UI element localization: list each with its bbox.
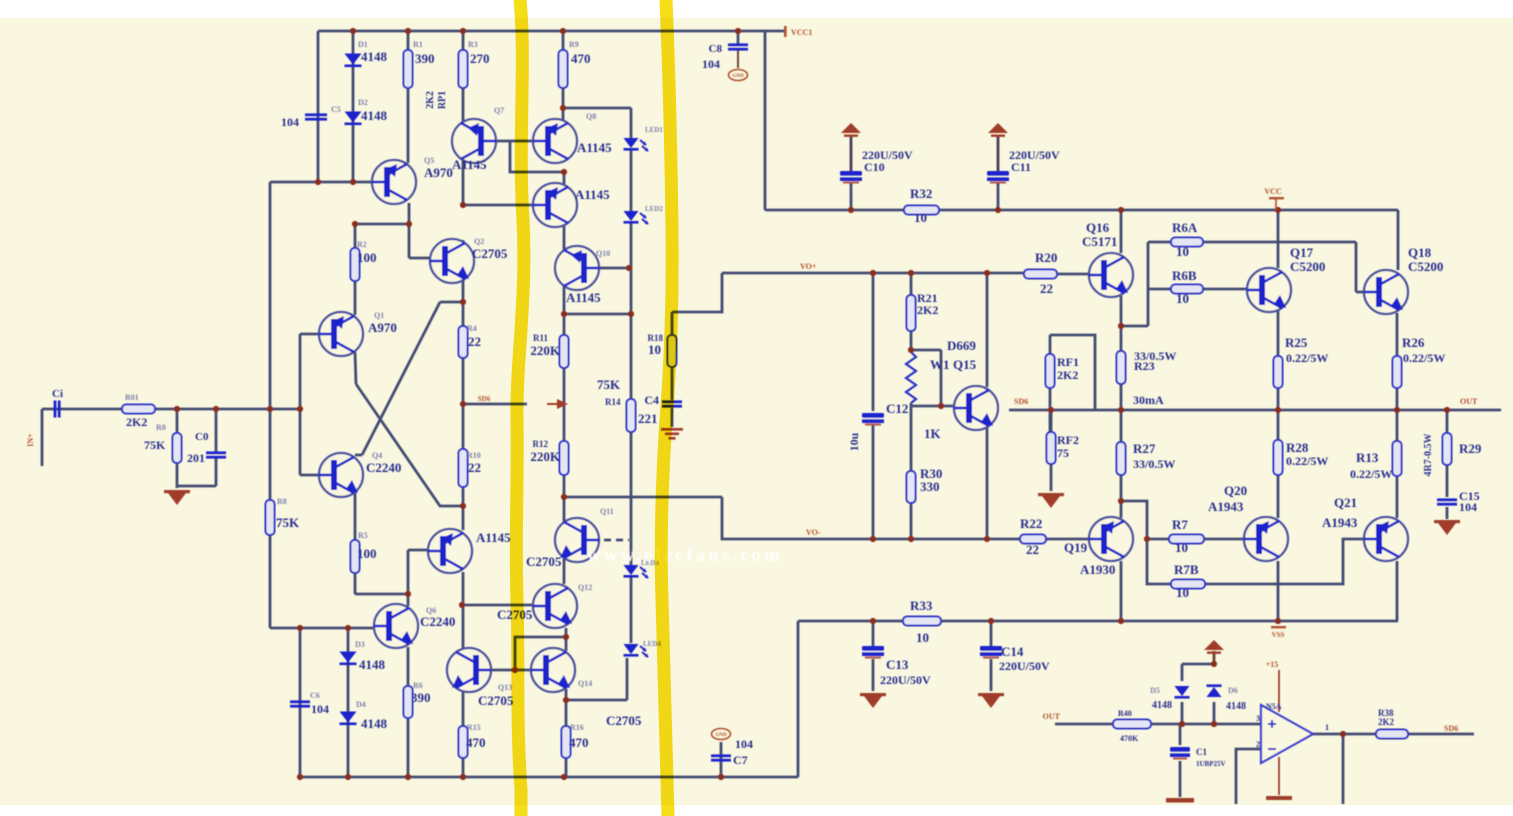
svg-text:Q1: Q1 [374,311,384,320]
svg-text:22: 22 [1026,542,1039,557]
svg-text:Q4: Q4 [372,451,382,460]
svg-text:D1: D1 [358,40,368,49]
svg-text:D669: D669 [947,338,976,353]
svg-text:R7: R7 [1172,517,1188,532]
svg-text:+15: +15 [1266,660,1279,669]
svg-text:R27: R27 [1133,441,1156,456]
svg-text:R10: R10 [467,451,481,460]
svg-text:C8: C8 [709,43,723,55]
svg-text:4148: 4148 [359,657,386,672]
svg-text:4148: 4148 [1226,701,1246,712]
svg-text:C4: C4 [644,393,659,407]
svg-text:220K: 220K [530,449,561,464]
svg-text:R7B: R7B [1174,562,1199,577]
svg-text:R33: R33 [910,598,933,613]
svg-text:D4: D4 [356,700,366,709]
svg-text:0.22/5W: 0.22/5W [1286,454,1328,468]
svg-text:OUT: OUT [1043,712,1061,721]
svg-text:A1943: A1943 [1208,499,1244,514]
svg-text:0.22/5W: 0.22/5W [1286,351,1328,365]
svg-text:270: 270 [470,51,490,66]
svg-text:C1: C1 [1196,747,1207,757]
svg-text:C2705: C2705 [526,554,562,569]
svg-text:C6: C6 [310,691,320,700]
svg-text:R2: R2 [357,240,367,249]
svg-text:1K: 1K [924,426,942,441]
svg-text:A1930: A1930 [1080,562,1115,577]
svg-text:A970: A970 [424,165,453,180]
svg-text:D5: D5 [1150,686,1160,695]
svg-text:VCC1: VCC1 [791,28,812,37]
svg-text:C0: C0 [195,431,209,443]
svg-text:1UBP25V: 1UBP25V [1196,760,1226,768]
svg-text:VSS: VSS [1272,631,1285,639]
svg-text:R8: R8 [277,497,287,506]
svg-text:2K2: 2K2 [1378,717,1395,727]
svg-text:22: 22 [1040,281,1053,296]
svg-text:220U/50V: 220U/50V [880,673,931,687]
svg-text:C5171: C5171 [1082,234,1117,249]
svg-text:3: 3 [1256,714,1260,723]
svg-text:C2240: C2240 [366,460,401,475]
svg-text:C10: C10 [864,160,885,174]
svg-text:4148: 4148 [361,716,388,731]
svg-text:100: 100 [357,250,377,265]
svg-text:470: 470 [571,51,591,66]
svg-text:GND: GND [715,733,727,738]
svg-text:R13: R13 [1356,450,1379,465]
svg-text:10u: 10u [847,432,861,451]
svg-text:A1943: A1943 [1322,515,1358,530]
svg-text:A1145: A1145 [476,530,511,545]
svg-text:LED1: LED1 [645,126,663,134]
svg-text:75K: 75K [144,438,166,452]
svg-text:2: 2 [1256,740,1260,749]
svg-text:104: 104 [1459,500,1477,514]
svg-text:2K2: 2K2 [917,303,938,317]
svg-text:Q5: Q5 [424,156,434,165]
svg-text:VO+: VO+ [800,262,817,271]
svg-text:4148: 4148 [361,49,388,64]
svg-text:10: 10 [648,342,661,357]
svg-text:75K: 75K [276,515,300,530]
svg-text:4148: 4148 [361,108,388,123]
svg-text:4R7-0.5W: 4R7-0.5W [1423,433,1434,476]
svg-text:R15: R15 [467,723,481,732]
svg-text:SD6: SD6 [478,395,491,403]
svg-text:R32: R32 [910,186,932,201]
svg-text:SD6: SD6 [1014,397,1028,406]
svg-text:RP1: RP1 [437,91,448,109]
svg-text:R25: R25 [1285,335,1308,350]
svg-text:R6B: R6B [1172,268,1197,283]
svg-text:104: 104 [702,57,720,71]
svg-text:100: 100 [357,546,377,561]
svg-text:R29: R29 [1459,441,1482,456]
svg-text:Q7: Q7 [494,106,504,115]
svg-text:VCC: VCC [1264,187,1282,196]
svg-text:10: 10 [914,210,927,225]
svg-text:104: 104 [311,702,329,716]
svg-text:201: 201 [187,451,205,465]
svg-text:R14: R14 [605,397,621,407]
svg-text:R12: R12 [533,439,549,449]
svg-text:Q11: Q11 [600,507,614,516]
svg-text:C5200: C5200 [1290,259,1325,274]
svg-text:390: 390 [411,690,431,705]
svg-text:221: 221 [638,411,658,426]
svg-text:SD6: SD6 [1444,724,1458,733]
svg-text:330: 330 [920,479,940,494]
svg-text:R9: R9 [569,40,579,49]
svg-text:10: 10 [1175,540,1188,555]
svg-text:33/0.5W: 33/0.5W [1133,457,1175,471]
svg-text:4148: 4148 [1152,700,1172,711]
svg-text:10: 10 [916,630,929,645]
svg-text:R5: R5 [358,531,368,540]
svg-text:R0: R0 [156,423,166,432]
svg-text:30mA: 30mA [1133,393,1164,407]
svg-text:R4: R4 [467,324,477,333]
svg-text:R23: R23 [1134,359,1155,373]
svg-text:Q19: Q19 [1064,540,1088,555]
svg-text:Q14: Q14 [578,679,592,688]
svg-text:R20: R20 [1035,250,1057,265]
svg-text:104: 104 [281,115,299,129]
svg-text:VO-: VO- [806,528,821,537]
svg-text:R6A: R6A [1172,220,1198,235]
svg-text:470K: 470K [1120,734,1139,743]
svg-text:220K: 220K [530,343,561,358]
svg-text:2K2: 2K2 [126,415,147,429]
svg-text:Q20: Q20 [1224,483,1247,498]
svg-text:R3: R3 [468,40,478,49]
svg-text:A1145: A1145 [577,140,612,155]
svg-text:75K: 75K [597,377,621,392]
svg-text:C13: C13 [886,657,909,672]
svg-text:470: 470 [466,735,486,750]
svg-text:Q13: Q13 [498,683,512,692]
svg-text:C12: C12 [886,401,908,416]
svg-text:Q18: Q18 [1408,245,1432,260]
svg-text:75: 75 [1057,446,1069,460]
svg-text:R16: R16 [570,723,584,732]
svg-text:R1: R1 [413,40,423,49]
svg-text:C14: C14 [1001,644,1024,659]
svg-text:www.elecfans.com: www.elecfans.com [587,545,783,566]
svg-text:Q17: Q17 [1290,245,1314,260]
svg-text:OUT: OUT [1460,397,1478,406]
svg-text:N5A: N5A [1266,702,1282,711]
svg-text:C5: C5 [331,105,341,114]
svg-text:104: 104 [735,737,753,751]
svg-text:10: 10 [1176,585,1189,600]
svg-text:0.22/5W: 0.22/5W [1350,467,1392,481]
svg-text:D3: D3 [355,640,365,649]
svg-text:Q8: Q8 [586,112,596,121]
svg-text:RF1: RF1 [1057,355,1079,369]
svg-text:C2705: C2705 [478,693,514,708]
svg-text:22: 22 [468,460,481,475]
svg-text:A970: A970 [368,320,397,335]
svg-text:2K2: 2K2 [425,91,436,109]
svg-text:10: 10 [1176,291,1189,306]
svg-text:C2705: C2705 [606,713,642,728]
svg-text:A1145: A1145 [566,290,601,305]
svg-text:A1145: A1145 [575,187,610,202]
svg-text:LED2: LED2 [645,205,663,213]
svg-text:R11: R11 [533,333,549,343]
svg-text:R22: R22 [1020,516,1042,531]
svg-text:Q15: Q15 [953,357,977,372]
svg-text:R01: R01 [125,393,139,402]
svg-text:220U/50V: 220U/50V [999,659,1050,673]
svg-text:R40: R40 [1118,709,1132,718]
svg-text:A1145: A1145 [452,157,487,172]
svg-text:Q10: Q10 [596,249,610,258]
svg-text:D6: D6 [1228,686,1238,695]
svg-text:IN+: IN+ [26,433,35,447]
svg-text:Q16: Q16 [1086,220,1110,235]
svg-text:C11: C11 [1011,160,1031,174]
svg-text:470: 470 [569,735,589,750]
svg-text:Q2: Q2 [474,237,484,246]
svg-text:GND: GND [732,74,744,79]
svg-text:RF2: RF2 [1057,433,1079,447]
svg-text:1: 1 [1325,723,1329,732]
svg-text:W1: W1 [930,357,950,372]
svg-text:C2240: C2240 [420,614,455,629]
svg-text:Q12: Q12 [578,583,592,592]
svg-text:Q21: Q21 [1334,495,1357,510]
svg-text:2K2: 2K2 [1057,368,1078,382]
svg-text:C5200: C5200 [1408,259,1443,274]
svg-text:R26: R26 [1402,335,1425,350]
svg-text:R28: R28 [1286,440,1309,455]
svg-text:Ci: Ci [52,388,63,400]
svg-text:10: 10 [1176,244,1189,259]
svg-text:0.22/5W: 0.22/5W [1403,351,1445,365]
svg-text:C7: C7 [733,753,748,767]
svg-text:390: 390 [415,51,435,66]
svg-text:C2705: C2705 [472,246,508,261]
svg-text:R6: R6 [413,681,423,690]
svg-text:22: 22 [468,334,481,349]
svg-text:D2: D2 [358,98,368,107]
